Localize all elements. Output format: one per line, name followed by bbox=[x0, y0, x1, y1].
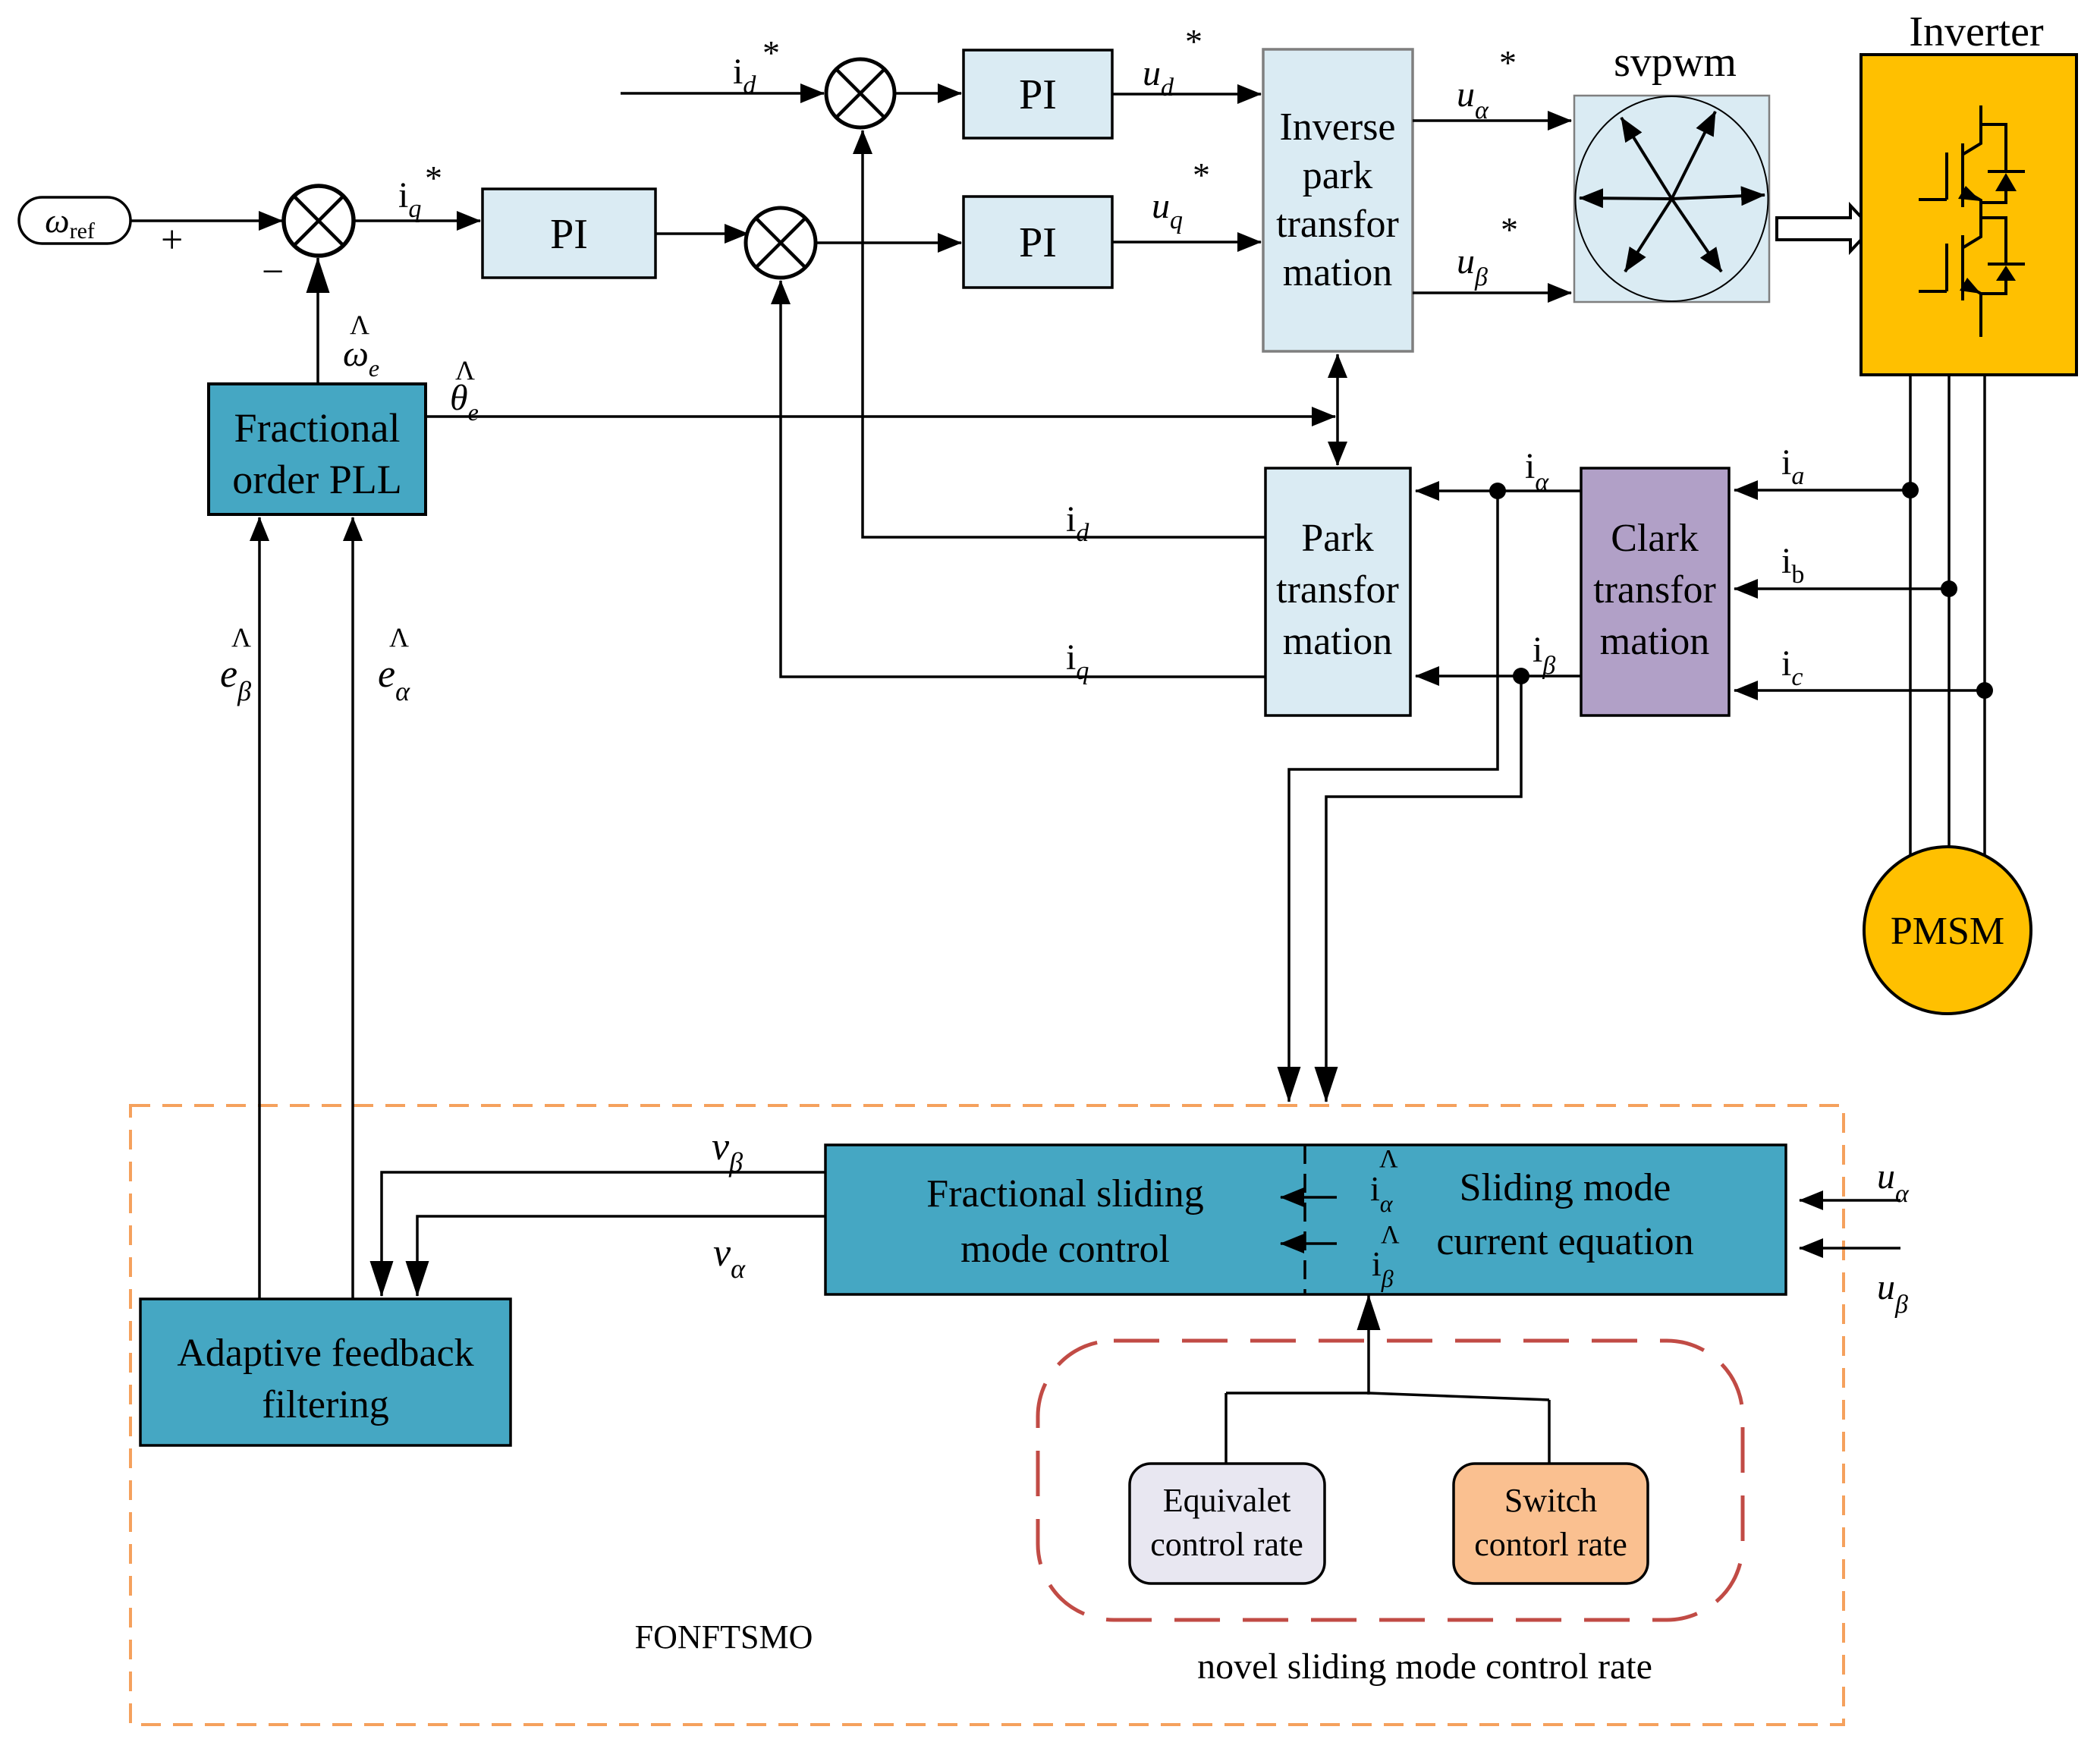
svg-text:Switch: Switch bbox=[1504, 1482, 1597, 1519]
PI box PI2 bbox=[964, 50, 1112, 138]
wire S2 to PI3 bbox=[816, 241, 961, 244]
wire PI2 to inverse park (ud*) bbox=[1112, 93, 1261, 96]
wire theta_e hat from PLL to transforms bbox=[426, 415, 1335, 418]
svg-text:Λ: Λ bbox=[1381, 1221, 1400, 1249]
wire inverter output phase b bbox=[1948, 375, 1951, 848]
svg-text:*: * bbox=[425, 159, 442, 197]
svg-text:*: * bbox=[762, 33, 780, 72]
wire u_alpha input bbox=[1800, 1199, 1900, 1202]
svg-text:Λ: Λ bbox=[231, 622, 251, 653]
svg-text:*: * bbox=[1185, 22, 1202, 61]
svg-text:Fractional sliding: Fractional sliding bbox=[926, 1172, 1203, 1216]
svg-text:Inverse: Inverse bbox=[1279, 105, 1395, 149]
junction dot i_alpha bbox=[1489, 483, 1506, 499]
svg-text:transfor: transfor bbox=[1276, 203, 1399, 246]
svg-text:Fractional: Fractional bbox=[234, 405, 401, 451]
wire control rate tent bbox=[1226, 1393, 1549, 1400]
wire id park to S3 bbox=[863, 131, 1265, 537]
junction dot ia bbox=[1902, 482, 1919, 498]
svg-text:park: park bbox=[1303, 154, 1372, 197]
svg-text:PI: PI bbox=[1019, 219, 1057, 266]
wire S3 to PI2 bbox=[894, 92, 961, 95]
svg-text:Clark: Clark bbox=[1611, 517, 1699, 560]
svg-text:transfor: transfor bbox=[1276, 568, 1399, 612]
svg-text:*: * bbox=[1499, 43, 1517, 82]
junction dot ib bbox=[1941, 580, 1957, 597]
svg-text:Equivalet: Equivalet bbox=[1163, 1482, 1291, 1519]
svg-text:Λ: Λ bbox=[1379, 1145, 1398, 1173]
wire e_beta hat up to PLL bbox=[258, 517, 261, 1299]
wire id* input bbox=[621, 92, 824, 95]
wire PI1 to summing junction S2 bbox=[655, 232, 748, 235]
block inverter bbox=[1861, 55, 2076, 375]
wire i_beta clark to park bbox=[1416, 675, 1581, 678]
block park transformation bbox=[1265, 468, 1410, 715]
wire inverter output phase a bbox=[1909, 375, 1912, 858]
wire omega_ref to summing junction S1 bbox=[130, 219, 282, 222]
node omega_ref bbox=[19, 197, 130, 244]
summing junction S2 bbox=[746, 208, 816, 278]
dashed FONFTSMO boundary bbox=[130, 1105, 1844, 1725]
wire i_alpha hat internal arrow bbox=[1281, 1196, 1337, 1199]
block clark transformation bbox=[1581, 468, 1729, 715]
summing junction S3 bbox=[826, 59, 894, 127]
block fractional sliding mode control / sliding mode current equation bbox=[825, 1145, 1786, 1294]
block switch contorl rate bbox=[1454, 1464, 1648, 1583]
svg-text:filtering: filtering bbox=[262, 1383, 389, 1426]
wire equivalet branch bbox=[1224, 1393, 1228, 1464]
svg-text:mation: mation bbox=[1600, 620, 1709, 663]
svg-text:control rate: control rate bbox=[1150, 1526, 1303, 1563]
svg-text:Inverter: Inverter bbox=[1909, 8, 2044, 55]
svg-text:FONFTSMO: FONFTSMO bbox=[635, 1618, 813, 1656]
svg-text:Sliding mode: Sliding mode bbox=[1460, 1166, 1671, 1209]
motor PMSM bbox=[1864, 847, 2031, 1014]
wire i_alpha feedback down to observer bbox=[1289, 491, 1498, 1102]
svg-text:mation: mation bbox=[1283, 620, 1392, 663]
block inverse park transformation bbox=[1263, 49, 1413, 351]
junction dot i_beta bbox=[1513, 668, 1529, 684]
svg-text:Λ: Λ bbox=[389, 622, 409, 653]
wire inverse park to svpwm (ub*) bbox=[1413, 291, 1571, 294]
wire ib to clark bbox=[1734, 587, 1949, 590]
svg-text:current equation: current equation bbox=[1436, 1220, 1693, 1263]
transistor Q1 (upper IGBT with diode) bbox=[1919, 105, 2025, 220]
PI box PI3 bbox=[964, 197, 1112, 288]
wire i_alpha clark to park bbox=[1416, 489, 1581, 492]
svg-text:mation: mation bbox=[1283, 251, 1392, 294]
junction dot ic bbox=[1976, 682, 1993, 699]
svg-text:Adaptive feedback: Adaptive feedback bbox=[177, 1332, 473, 1375]
svg-text:transfor: transfor bbox=[1593, 568, 1716, 612]
svg-text:PMSM: PMSM bbox=[1891, 910, 2004, 953]
block arrow svpwm to inverter bbox=[1777, 206, 1872, 251]
block fractional order PLL bbox=[209, 384, 426, 514]
wire i_beta hat internal arrow bbox=[1281, 1242, 1337, 1245]
wire iq park to S2 bbox=[781, 281, 1265, 677]
wire e_alpha hat up to PLL bbox=[351, 517, 354, 1299]
block svpwm bbox=[1574, 96, 1769, 302]
svg-text:*: * bbox=[1501, 210, 1518, 249]
block adaptive feedback filtering bbox=[140, 1299, 511, 1445]
wire v_beta to adaptive filter bbox=[382, 1172, 825, 1296]
svg-text:PI: PI bbox=[550, 211, 588, 258]
svg-text:Park: Park bbox=[1301, 517, 1373, 560]
svg-text:novel sliding mode control rat: novel sliding mode control rate bbox=[1197, 1646, 1652, 1687]
svg-text:PI: PI bbox=[1019, 71, 1057, 118]
svg-text:svpwm: svpwm bbox=[1614, 39, 1737, 86]
dashed novel sliding mode control rate boundary bbox=[1038, 1341, 1743, 1620]
PI box PI1 bbox=[483, 189, 655, 278]
transistor Q2 (lower IGBT with diode) bbox=[1919, 218, 2025, 337]
wire switch branch bbox=[1548, 1400, 1551, 1464]
svg-text:*: * bbox=[1193, 156, 1210, 194]
wire control rate up arrow bbox=[1367, 1295, 1370, 1395]
svg-text:order PLL: order PLL bbox=[232, 457, 401, 502]
svg-text:−: − bbox=[262, 250, 284, 294]
wire PI3 to inverse park (uq*) bbox=[1112, 241, 1261, 244]
wire inverter output phase c bbox=[1983, 375, 1986, 858]
wire i_beta feedback down to observer bbox=[1326, 676, 1521, 1102]
wire ia to clark bbox=[1734, 489, 1910, 492]
svg-text:mode control: mode control bbox=[960, 1228, 1170, 1271]
wire PLL to S1 (omega_e hat) bbox=[316, 258, 319, 384]
wire inverse park to svpwm (ua*) bbox=[1413, 119, 1571, 122]
wire double arrow between inverse park and park bbox=[1336, 354, 1339, 465]
wire S1 to PI1 bbox=[354, 219, 480, 222]
svg-text:+: + bbox=[161, 219, 183, 262]
wire ic to clark bbox=[1734, 689, 1985, 692]
wire u_beta input bbox=[1800, 1247, 1900, 1250]
block equivalet control rate bbox=[1130, 1464, 1325, 1583]
wire v_alpha to adaptive filter bbox=[417, 1216, 825, 1296]
summing junction S1 bbox=[284, 186, 354, 256]
svg-text:contorl rate: contorl rate bbox=[1474, 1526, 1627, 1563]
